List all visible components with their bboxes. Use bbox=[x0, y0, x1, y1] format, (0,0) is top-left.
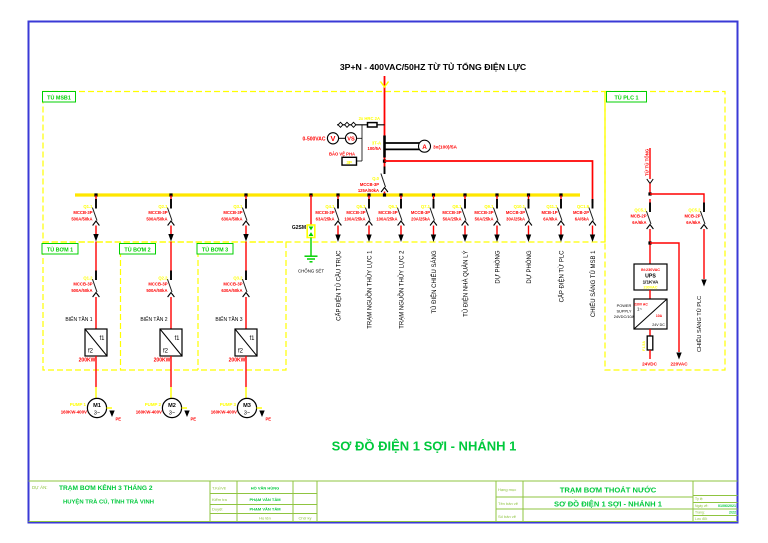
current transformer CT 100/5A bbox=[367, 136, 421, 158]
svg-text:Tỷ lệ:: Tỷ lệ: bbox=[695, 497, 703, 501]
arrow: feeder exit to TU BOM 2 bbox=[168, 234, 173, 242]
svg-text:100A/25kA: 100A/25kA bbox=[344, 217, 365, 222]
arrow: 220VAC outlet bbox=[676, 353, 681, 360]
net label: incoming supply 3P+N bbox=[340, 61, 527, 72]
svg-text:VS: VS bbox=[347, 137, 355, 143]
svg-text:Q3.1: Q3.1 bbox=[233, 204, 243, 209]
svg-text:M1: M1 bbox=[93, 403, 101, 409]
svg-text:HỒ VĂN HÙNG: HỒ VĂN HÙNG bbox=[251, 486, 279, 491]
svg-text:MCCB-3P: MCCB-3P bbox=[73, 282, 92, 287]
svg-text:BIẾN TẦN 1: BIẾN TẦN 1 bbox=[65, 316, 92, 323]
node: busbar tap pump 2 bbox=[169, 193, 172, 196]
node: main line / PLC-lighting tap bbox=[383, 160, 386, 163]
motor M3 pump 3 160KW bbox=[211, 398, 257, 417]
breaker QC1.9 MCB-2P bbox=[573, 199, 596, 226]
breaker Q2.1 MCCB-3P bbox=[146, 196, 174, 226]
svg-text:BIẾN TẦN 3: BIẾN TẦN 3 bbox=[215, 316, 242, 323]
wire bbox=[528, 226, 530, 236]
wire bbox=[400, 226, 402, 236]
svg-text:f2: f2 bbox=[88, 349, 94, 355]
svg-text:500A/50kA: 500A/50kA bbox=[146, 288, 167, 293]
wire bbox=[496, 226, 498, 236]
VFD BIEN TAN 1 (variable frequency drive) bbox=[65, 316, 107, 364]
wire: incoming feed to PLC cabinet bbox=[649, 148, 651, 179]
connector chevron PLC feed bbox=[647, 179, 653, 184]
svg-text:MCCB-3P: MCCB-3P bbox=[148, 210, 167, 215]
svg-text:MCB-2P: MCB-2P bbox=[573, 210, 589, 215]
wire bbox=[245, 356, 247, 399]
arrow: feeder exit Q9.1 bbox=[494, 235, 499, 243]
title block: scale/date/page bbox=[695, 497, 736, 521]
wire bbox=[592, 226, 594, 236]
svg-text:MCCB-3P: MCCB-3P bbox=[474, 210, 493, 215]
svg-text:TRẠM BƠM KÊNH 3 THÁNG 2: TRẠM BƠM KÊNH 3 THÁNG 2 bbox=[59, 483, 153, 492]
motor M1 pump 1 160KW bbox=[61, 398, 107, 417]
svg-text:Lưu đổi:: Lưu đổi: bbox=[695, 517, 708, 521]
svg-text:TỦ MSB1: TỦ MSB1 bbox=[47, 95, 71, 102]
svg-text:MCCB-3P: MCCB-3P bbox=[148, 282, 167, 287]
svg-text:MCCB-3P: MCCB-3P bbox=[73, 210, 92, 215]
arrow: feeder exit QC1.9 bbox=[590, 235, 595, 243]
svg-text:MCCB-3P: MCCB-3P bbox=[223, 210, 242, 215]
arrow: feeder exit to TU BOM 3 bbox=[243, 234, 248, 242]
wire bbox=[649, 329, 651, 336]
svg-text:0-500VAC: 0-500VAC bbox=[303, 136, 326, 142]
arrow: feeder exit Q10.1 bbox=[526, 235, 531, 243]
wire bbox=[95, 242, 97, 271]
svg-text:63A/25kA: 63A/25kA bbox=[316, 217, 335, 222]
wire bbox=[95, 226, 97, 235]
net label: 24VDC bbox=[642, 362, 657, 367]
net label: TU TU TONG bbox=[644, 148, 649, 176]
breaker Q11.1 MCB-1P bbox=[541, 196, 564, 226]
svg-text:100/5A: 100/5A bbox=[367, 146, 381, 151]
node: UPS branch / 220VAC branch bbox=[648, 241, 651, 244]
breaker Q8.1 MCCB-3P bbox=[442, 196, 468, 226]
svg-text:Q6.1: Q6.1 bbox=[388, 204, 398, 209]
svg-text:SUPPLY: SUPPLY bbox=[616, 309, 631, 314]
connector chevron on incoming feeder bbox=[381, 82, 389, 88]
cabinet TỦ BƠM 3 name tag bbox=[197, 244, 233, 255]
arrow: feeder exit Q11.1 bbox=[558, 235, 563, 243]
svg-text:6A/6kA: 6A/6kA bbox=[543, 217, 557, 222]
breaker Q5.1 MCCB-3P bbox=[344, 196, 372, 226]
svg-text:MCCB-3P: MCCB-3P bbox=[315, 210, 334, 215]
svg-text:TỦ ĐIỆN CHIẾU SÁNG: TỦ ĐIỆN CHIẾU SÁNG bbox=[430, 250, 438, 313]
breaker Q4.1 MCCB-3P bbox=[315, 196, 341, 226]
wire bbox=[310, 238, 312, 257]
svg-text:50A/25kA: 50A/25kA bbox=[475, 217, 494, 222]
svg-text:24V DC: 24V DC bbox=[652, 323, 665, 327]
svg-text:f1: f1 bbox=[99, 336, 105, 342]
svg-text:200KW: 200KW bbox=[79, 358, 96, 364]
title block: project name bbox=[32, 483, 154, 506]
breaker Q2.2 MCCB-3P bbox=[146, 271, 174, 298]
wire bbox=[560, 226, 562, 236]
breaker Q0 MCCB-3P 125A/50kA (main incomer) bbox=[358, 167, 388, 194]
wire bbox=[649, 290, 651, 299]
node: busbar tap Q10.1 bbox=[527, 193, 530, 196]
cabinet TU MSB1 name tag bbox=[43, 92, 76, 103]
svg-text:3~: 3~ bbox=[169, 411, 175, 417]
svg-text:POWER: POWER bbox=[617, 303, 632, 308]
wire bbox=[170, 242, 172, 271]
svg-text:f2: f2 bbox=[238, 349, 244, 355]
svg-text:BẢO VỆ PHA: BẢO VỆ PHA bbox=[329, 152, 355, 157]
svg-text:3P+N - 400VAC/50HZ TỪ TỦ TỔNG: 3P+N - 400VAC/50HZ TỪ TỦ TỔNG ĐIỆN LỰC bbox=[340, 61, 527, 72]
svg-text:PUMP 1: PUMP 1 bbox=[70, 402, 87, 407]
svg-text:Q4.1: Q4.1 bbox=[325, 204, 335, 209]
svg-text:f1: f1 bbox=[174, 336, 180, 342]
svg-text:500A/50kA: 500A/50kA bbox=[146, 217, 167, 222]
wire bbox=[337, 226, 339, 236]
svg-text:CẤP ĐIỆN TỪ PLC: CẤP ĐIỆN TỪ PLC bbox=[557, 250, 565, 303]
breaker Q1.2 MCCB-3P bbox=[71, 271, 99, 298]
svg-text:Ngày vẽ:: Ngày vẽ: bbox=[695, 504, 708, 508]
drawing title: SO DO DIEN 1 SOI - NHANH 1 bbox=[332, 439, 517, 454]
arrow: feeder exit Q5.1 bbox=[366, 235, 371, 243]
svg-text:Q2.1: Q2.1 bbox=[158, 204, 168, 209]
wire bbox=[95, 356, 97, 399]
svg-text:PE: PE bbox=[116, 417, 122, 422]
svg-text:3~: 3~ bbox=[94, 411, 100, 417]
svg-text:Chữ ký: Chữ ký bbox=[299, 516, 312, 521]
svg-text:160KW-400V: 160KW-400V bbox=[61, 410, 87, 415]
arrow: feeder exit to TU BOM 1 bbox=[93, 234, 98, 242]
breaker QC5.2 MCB-2P bbox=[684, 203, 707, 230]
svg-text:HUYỆN TRÀ CÚ, TỈNH TRÀ VINH: HUYỆN TRÀ CÚ, TỈNH TRÀ VINH bbox=[63, 498, 154, 506]
svg-text:Q10.1: Q10.1 bbox=[514, 204, 526, 209]
svg-text:125A/50kA: 125A/50kA bbox=[358, 188, 379, 193]
breaker Q6.1 MCCB-3P bbox=[376, 196, 404, 226]
svg-text:200KW: 200KW bbox=[154, 358, 171, 364]
svg-text:TỦ BƠM 3: TỦ BƠM 3 bbox=[202, 247, 228, 254]
wire bbox=[245, 242, 247, 271]
net label: CẤP ĐIỆN TỪ PLC bbox=[557, 250, 565, 303]
fuse F5 5A (24VDC output) bbox=[642, 336, 653, 351]
svg-text:Q11.1: Q11.1 bbox=[546, 204, 558, 209]
svg-text:PE: PE bbox=[266, 417, 272, 422]
svg-text:500A/50kA: 500A/50kA bbox=[71, 288, 92, 293]
voltmeter V (0-500VAC) bbox=[303, 133, 339, 144]
wire bbox=[703, 229, 705, 279]
svg-text:Tên bản vẽ: Tên bản vẽ bbox=[498, 501, 519, 506]
arrow: PLC cabinet lighting bbox=[701, 280, 706, 287]
net label: 220VAC bbox=[670, 362, 688, 367]
svg-text:24VDC/10A: 24VDC/10A bbox=[614, 314, 635, 319]
cabinet TỦ BƠM 2 name tag bbox=[120, 244, 156, 255]
wire bbox=[95, 297, 97, 329]
wire bbox=[649, 184, 651, 195]
net label: TRẠM NGUỒN THỦY LỰC 2 bbox=[398, 250, 405, 329]
ground PE of motor M2 bbox=[182, 408, 197, 422]
svg-text:QC1.9: QC1.9 bbox=[577, 204, 590, 209]
svg-text:Q.0: Q.0 bbox=[372, 176, 379, 181]
wire bbox=[245, 226, 247, 235]
wire bbox=[170, 356, 172, 399]
wire bbox=[170, 226, 172, 235]
svg-text:1~: 1~ bbox=[637, 307, 642, 312]
cabinet TU PLC 1 (dashed enclosure) bbox=[605, 92, 725, 371]
ammeter A 3x(100)/5A bbox=[419, 140, 458, 152]
svg-text:20A/25kA: 20A/25kA bbox=[411, 217, 430, 222]
svg-text:DỰ ÁN:: DỰ ÁN: bbox=[32, 485, 47, 490]
svg-text:Q8.1: Q8.1 bbox=[452, 204, 462, 209]
wire bbox=[170, 297, 172, 329]
svg-text:3x(100)/5A: 3x(100)/5A bbox=[433, 144, 458, 150]
node: busbar tap Q4.1 bbox=[336, 193, 339, 196]
ground of surge arrester bbox=[298, 256, 324, 273]
net label: CHIEU SANG TU PLC bbox=[696, 296, 703, 352]
svg-text:DỰ PHÒNG: DỰ PHÒNG bbox=[526, 250, 533, 283]
svg-text:TỦ BƠM 2: TỦ BƠM 2 bbox=[124, 247, 150, 254]
svg-text:PUMP 2: PUMP 2 bbox=[145, 402, 162, 407]
breaker Q1.1 MCCB-3P bbox=[71, 196, 99, 226]
UPS U1 1/1KVA bbox=[634, 264, 667, 290]
node: busbar tap surge arrester bbox=[309, 193, 312, 196]
node: incomer to busbar bbox=[383, 193, 386, 196]
net label: DỰ PHÒNG bbox=[494, 250, 501, 283]
svg-text:Hạng mục: Hạng mục bbox=[498, 487, 516, 492]
cabinet TU PLC 1 name tag bbox=[607, 92, 647, 103]
svg-text:MCCB-3P: MCCB-3P bbox=[378, 210, 397, 215]
cabinet TỦ BƠM 1 name tag bbox=[42, 244, 78, 255]
svg-text:30A/25kA: 30A/25kA bbox=[506, 217, 525, 222]
svg-text:Q1.1: Q1.1 bbox=[83, 204, 93, 209]
net label: DỰ PHÒNG bbox=[526, 250, 533, 283]
node: PLC feed split bbox=[648, 192, 651, 195]
node: busbar tap Q8.1 bbox=[463, 193, 466, 196]
svg-text:V: V bbox=[331, 134, 336, 143]
svg-text:Họ tên: Họ tên bbox=[259, 516, 271, 521]
wire: tap to MSB1 cabinet lighting bbox=[385, 161, 593, 203]
svg-text:MCCB-3P: MCCB-3P bbox=[223, 282, 242, 287]
svg-text:PE: PE bbox=[191, 417, 197, 422]
svg-text:230VAC: 230VAC bbox=[643, 286, 657, 290]
svg-text:500A/50kA: 500A/50kA bbox=[71, 217, 92, 222]
svg-text:MCCB-3P: MCCB-3P bbox=[360, 182, 379, 187]
node: busbar tap Q5.1 bbox=[367, 193, 370, 196]
motor M2 pump 2 160KW bbox=[136, 398, 182, 417]
svg-text:2/22: 2/22 bbox=[729, 511, 736, 515]
svg-text:DỰ PHÒNG: DỰ PHÒNG bbox=[494, 250, 501, 283]
svg-text:Kiểm tra: Kiểm tra bbox=[212, 497, 228, 502]
svg-text:Duyệt: Duyệt bbox=[212, 507, 223, 512]
svg-text:Số bản vẽ: Số bản vẽ bbox=[498, 514, 517, 519]
svg-text:Q5.1: Q5.1 bbox=[356, 204, 366, 209]
power supply PS1 24VDC/10A bbox=[614, 299, 667, 329]
svg-text:M2: M2 bbox=[168, 403, 176, 409]
svg-text:CHỐNG SÉT: CHỐNG SÉT bbox=[298, 269, 324, 274]
wire: shared cabinet edge (double-drawn) bbox=[604, 92, 606, 243]
node: busbar tap pump 3 bbox=[244, 193, 247, 196]
net label: TỦ ĐIỆN CHIẾU SÁNG bbox=[430, 250, 438, 313]
svg-text:Trang:: Trang: bbox=[695, 511, 705, 515]
svg-text:Q7.1: Q7.1 bbox=[421, 204, 431, 209]
svg-text:TRẠM BƠM THOÁT NƯỚC: TRẠM BƠM THOÁT NƯỚC bbox=[560, 486, 657, 495]
svg-text:CẤP ĐIỆN TỦ CẦU TRỤC: CẤP ĐIỆN TỦ CẦU TRỤC bbox=[334, 250, 342, 321]
svg-text:100A/25kA: 100A/25kA bbox=[376, 217, 397, 222]
svg-text:160KW-400V: 160KW-400V bbox=[211, 410, 237, 415]
svg-text:Q9.1: Q9.1 bbox=[484, 204, 494, 209]
arrow: feeder exit Q4.1 bbox=[335, 235, 340, 243]
breaker Q7.1 MCCB-3P bbox=[411, 196, 437, 226]
node: busbar tap Q9.1 bbox=[495, 193, 498, 196]
net label: TRẠM NGUỒN THỦY LỰC 1 bbox=[366, 250, 373, 329]
arrow: feeder exit Q8.1 bbox=[462, 235, 467, 243]
wire bbox=[649, 229, 651, 264]
svg-text:SƠ ĐỒ ĐIỆN 1 SỢI - NHÁNH 1: SƠ ĐỒ ĐIỆN 1 SỢI - NHÁNH 1 bbox=[554, 499, 663, 509]
svg-text:MCB-2P: MCB-2P bbox=[630, 214, 646, 219]
svg-text:01/06/2021: 01/06/2021 bbox=[718, 504, 736, 508]
wire bbox=[245, 297, 247, 329]
VFD BIEN TAN 3 (variable frequency drive) bbox=[215, 316, 257, 364]
cabinet TU BOM 1-3 (dashed enclosures) bbox=[43, 242, 286, 370]
phase protection relay BAO VE PHA bbox=[329, 152, 357, 166]
svg-text:QC5.1: QC5.1 bbox=[634, 208, 647, 213]
voltmeter selector switch VS bbox=[339, 133, 357, 144]
fuse F0 2x HRC 2A with terminal diamonds bbox=[337, 116, 385, 127]
svg-text:SƠ ĐỒ ĐIỆN 1 SỢI - NHÁNH 1: SƠ ĐỒ ĐIỆN 1 SỢI - NHÁNH 1 bbox=[332, 439, 517, 454]
svg-text:PUMP 3: PUMP 3 bbox=[220, 402, 237, 407]
net label: CHIEU SANG TU MSB 1 bbox=[590, 250, 597, 317]
svg-text:TRẠM NGUỒN THỦY LỰC 1: TRẠM NGUỒN THỦY LỰC 1 bbox=[366, 250, 373, 329]
arrow: feeder exit Q6.1 bbox=[398, 235, 403, 243]
svg-text:CHIẾU SÁNG TỦ PLC: CHIẾU SÁNG TỦ PLC bbox=[696, 296, 703, 352]
svg-text:6A/6kA: 6A/6kA bbox=[686, 220, 700, 225]
wire: meter tap bbox=[357, 125, 363, 161]
svg-text:160KW-400V: 160KW-400V bbox=[136, 410, 162, 415]
svg-text:MCCB-3P: MCCB-3P bbox=[411, 210, 430, 215]
breaker QC5.1 MCB-2P bbox=[630, 199, 653, 229]
title block: signatures bbox=[212, 486, 311, 521]
svg-text:630A/50kA: 630A/50kA bbox=[221, 288, 242, 293]
svg-text:QC5.2: QC5.2 bbox=[688, 208, 701, 213]
node: busbar tap pump 1 bbox=[94, 193, 97, 196]
net label: TỦ ĐIỆN NHÀ QUẢN LÝ bbox=[461, 251, 469, 317]
breaker Q3.2 MCCB-3P bbox=[221, 271, 249, 298]
node: busbar tap Q6.1 bbox=[399, 193, 402, 196]
svg-text:MCCB-3P: MCCB-3P bbox=[506, 210, 525, 215]
svg-text:F1-5A: F1-5A bbox=[642, 341, 646, 351]
svg-text:200KW: 200KW bbox=[229, 358, 246, 364]
svg-text:M3: M3 bbox=[243, 403, 251, 409]
breaker Q9.1 MCCB-3P bbox=[474, 196, 500, 226]
svg-text:50A/25kA: 50A/25kA bbox=[443, 217, 462, 222]
svg-text:PHẠM VĂN TÂM: PHẠM VĂN TÂM bbox=[249, 497, 281, 502]
svg-text:TRẠM NGUỒN THỦY LỰC 2: TRẠM NGUỒN THỦY LỰC 2 bbox=[398, 250, 405, 329]
svg-text:TỦ BƠM 1: TỦ BƠM 1 bbox=[47, 247, 73, 254]
svg-text:Q3.2: Q3.2 bbox=[233, 276, 243, 281]
svg-text:6A/6kA: 6A/6kA bbox=[575, 217, 589, 222]
svg-text:220VAC: 220VAC bbox=[670, 362, 688, 367]
svg-text:TỪ TỦ TỔNG: TỪ TỦ TỔNG bbox=[644, 148, 649, 176]
title block: drawing info bbox=[498, 486, 663, 520]
svg-text:TỦ PLC 1: TỦ PLC 1 bbox=[615, 95, 639, 102]
svg-text:3~: 3~ bbox=[244, 411, 250, 417]
svg-text:630A/50kA: 630A/50kA bbox=[221, 217, 242, 222]
net label: CẤP ĐIỆN TỦ CẦU TRỤC bbox=[334, 250, 342, 321]
svg-text:MCCB-3P: MCCB-3P bbox=[442, 210, 461, 215]
svg-text:6A/6kA: 6A/6kA bbox=[632, 220, 646, 225]
svg-text:T.Kế/Vẽ: T.Kế/Vẽ bbox=[212, 486, 227, 491]
svg-text:Q2.2: Q2.2 bbox=[158, 276, 168, 281]
wire bbox=[649, 350, 651, 359]
arrow: feeder exit Q7.1 bbox=[431, 235, 436, 243]
svg-text:A: A bbox=[422, 144, 427, 151]
wire bbox=[433, 226, 435, 236]
svg-text:Q1.2: Q1.2 bbox=[83, 276, 93, 281]
title block table bbox=[29, 481, 738, 522]
svg-text:10A: 10A bbox=[656, 314, 663, 318]
svg-text:PHẠM VĂN TÂM: PHẠM VĂN TÂM bbox=[249, 507, 281, 512]
surge arrester G2SM (CHONG SET) bbox=[292, 195, 315, 238]
svg-text:24VDC: 24VDC bbox=[642, 362, 657, 367]
svg-text:TỦ ĐIỆN NHÀ QUẢN LÝ: TỦ ĐIỆN NHÀ QUẢN LÝ bbox=[461, 251, 469, 317]
svg-text:1/1KVA: 1/1KVA bbox=[643, 280, 659, 285]
cabinet TU MSB1 (dashed enclosure) bbox=[43, 92, 605, 243]
svg-text:f2: f2 bbox=[163, 349, 169, 355]
VFD BIEN TAN 2 (variable frequency drive) bbox=[140, 316, 182, 364]
svg-text:IN:230VAC: IN:230VAC bbox=[641, 268, 660, 272]
svg-text:MCB-1P: MCB-1P bbox=[541, 210, 557, 215]
ground PE of motor M3 bbox=[257, 408, 272, 422]
ground PE of motor M1 bbox=[107, 408, 122, 422]
svg-text:2x HRC 2A: 2x HRC 2A bbox=[359, 116, 380, 121]
wire bbox=[464, 226, 466, 236]
wire bbox=[368, 226, 370, 236]
breaker Q3.1 MCCB-3P bbox=[221, 196, 249, 226]
busbar MSB1 bbox=[75, 193, 580, 196]
breaker Q10.1 MCCB-3P bbox=[506, 196, 532, 226]
svg-text:G2SM: G2SM bbox=[292, 225, 306, 231]
svg-text:f1: f1 bbox=[249, 336, 255, 342]
node: busbar tap Q7.1 bbox=[432, 193, 435, 196]
svg-text:BIẾN TẦN 2: BIẾN TẦN 2 bbox=[140, 316, 167, 323]
svg-text:MCCB-3P: MCCB-3P bbox=[346, 210, 365, 215]
wire bbox=[650, 194, 704, 204]
svg-text:3P: 3P bbox=[346, 160, 352, 165]
svg-text:CHIẾU SÁNG TỦ MSB 1: CHIẾU SÁNG TỦ MSB 1 bbox=[590, 250, 597, 317]
node: busbar tap Q11.1 bbox=[559, 193, 562, 196]
svg-text:MCB-2P: MCB-2P bbox=[684, 214, 700, 219]
wire: 220VAC branch bbox=[650, 243, 679, 352]
wire: incoming feeder to Q0 bbox=[384, 76, 386, 194]
